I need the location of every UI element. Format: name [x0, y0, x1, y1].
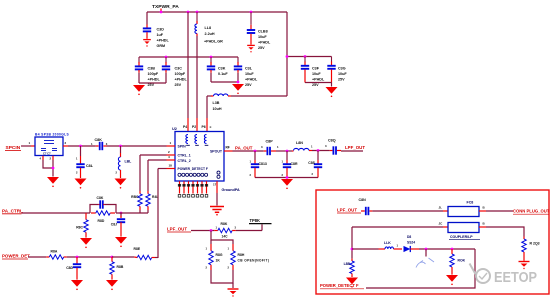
svg-text:25V: 25V — [245, 83, 252, 87]
wire shunt rail — [255, 176, 318, 179]
wire PA_OUT — [233, 150, 264, 153]
svg-text:18: 18 — [169, 163, 173, 167]
svg-text:L8B: L8B — [344, 262, 351, 266]
svg-text:C8Q: C8Q — [328, 138, 336, 142]
svg-text:R8B: R8B — [117, 265, 124, 269]
svg-text:TP8K: TP8K — [250, 218, 261, 223]
svg-text:25V: 25V — [175, 83, 182, 87]
junction dots on bus — [160, 11, 253, 14]
wire seg — [276, 150, 292, 153]
svg-text:PA_OUT: PA_OUT — [235, 146, 253, 151]
resistor R8C — [131, 194, 142, 207]
svg-text:L3B: L3B — [213, 101, 220, 105]
capacitor CLB — [247, 12, 271, 50]
IC pin 2 stub — [167, 150, 176, 155]
svg-text:LLK: LLK — [384, 241, 391, 245]
wire FC8 out — [479, 206, 513, 211]
wire divider top — [211, 231, 233, 245]
svg-text:R8K: R8K — [221, 222, 228, 226]
ground under C3D — [143, 40, 151, 47]
svg-text:C8K: C8K — [97, 196, 104, 200]
net label LPF_OUT — [341, 145, 365, 151]
filter FC8 box — [448, 201, 479, 217]
svg-text:C3B: C3B — [148, 67, 156, 71]
wire coupler out — [479, 222, 524, 237]
svg-text:C8K: C8K — [95, 138, 103, 142]
ground under C8D — [71, 280, 83, 290]
IC pin 3 stub — [167, 155, 176, 160]
capacitor C8R shunt — [282, 151, 298, 178]
svg-text:100pF: 100pF — [175, 72, 186, 76]
svg-text:R8E: R8E — [134, 247, 141, 251]
svg-text:C3C: C3C — [175, 67, 183, 71]
inductor LLK — [384, 241, 402, 249]
svg-text:C3D: C3D — [157, 28, 165, 32]
wire POWER_DETECT vertical — [158, 169, 167, 259]
wire to R8K — [191, 229, 214, 232]
ground under C8J — [115, 237, 127, 247]
net label LPF_OUT 2 — [167, 227, 191, 232]
svg-text:25V: 25V — [338, 78, 345, 82]
svg-text:+PHDL: +PHDL — [148, 78, 161, 82]
coupler box — [448, 223, 480, 240]
wire POWER_DET — [28, 256, 46, 258]
svg-text:C3F: C3F — [312, 67, 320, 71]
text GroundPA — [222, 188, 240, 192]
capacitor C3B — [135, 57, 161, 87]
IC output pin stub — [224, 146, 233, 151]
IC internal gnd ball row — [178, 171, 220, 178]
testpoint TP8K — [249, 218, 272, 224]
IC bottom pin pads — [178, 195, 208, 198]
wire CTRL_1 to R8C — [140, 155, 167, 194]
net label SPCIN — [5, 145, 21, 151]
svg-text:25V: 25V — [312, 83, 319, 87]
capacitor C3D — [143, 25, 170, 49]
resistor ROK — [450, 249, 466, 275]
svg-text:C8L: C8L — [86, 164, 94, 168]
wire divider bottom — [211, 270, 233, 288]
capacitor C3K — [207, 57, 229, 82]
capacitor C8L shunt — [76, 146, 94, 178]
svg-text:LPF_OUT: LPF_OUT — [345, 145, 365, 150]
wire filter out — [68, 145, 96, 148]
wire to testpoint — [236, 224, 262, 230]
wire row3 right — [419, 248, 475, 251]
filter FL1 output stub — [63, 141, 68, 146]
capacitor C3F — [301, 57, 325, 88]
resistor R8D series — [91, 211, 115, 223]
net label PA_CTRL — [2, 208, 23, 214]
capacitor C8N series — [359, 198, 373, 215]
svg-text:SPOUT: SPOUT — [210, 150, 223, 154]
filter FL1 internals — [41, 141, 57, 156]
svg-text:LPF_OUT: LPF_OUT — [337, 207, 357, 212]
svg-text:CTRL_1: CTRL_1 — [178, 154, 191, 158]
ground under CLB — [247, 45, 255, 52]
svg-text:+PHDL: +PHDL — [258, 41, 271, 45]
ground bank2 — [232, 84, 244, 94]
svg-text:R8D: R8D — [98, 219, 105, 223]
ground under FL1 — [47, 177, 59, 187]
ground under R2Q3 — [519, 262, 530, 270]
IC internal coil 3 — [204, 135, 208, 146]
svg-text:POWER_DET: POWER_DET — [2, 254, 30, 259]
ground pair3 — [326, 87, 338, 97]
resistor R8B shunt — [110, 257, 124, 280]
capacitor C8K series — [91, 138, 108, 150]
svg-text:CONN PLUG_OUT: CONN PLUG_OUT — [513, 209, 550, 214]
wire coupler left — [352, 222, 448, 227]
capacitor C8Q series — [325, 138, 341, 154]
wire to IC pin1 — [107, 145, 167, 148]
IC internal coil 1 — [186, 135, 190, 146]
svg-text:C8J: C8J — [111, 222, 117, 226]
svg-text:+PHDL: +PHDL — [157, 39, 170, 43]
IC U2 box — [172, 127, 224, 181]
net label POWER_DET — [2, 254, 30, 259]
svg-text:10uH: 10uH — [213, 107, 222, 111]
svg-text:COUPLER/LP: COUPLER/LP — [450, 235, 473, 239]
diode D8 — [404, 235, 420, 252]
svg-text:GroundPA: GroundPA — [222, 188, 240, 192]
ground under C8L — [75, 179, 87, 189]
svg-text:P2: P2 — [192, 125, 196, 129]
svg-text:C8N: C8N — [359, 198, 367, 202]
svg-text:L8N: L8N — [296, 141, 303, 145]
svg-text:17: 17 — [213, 183, 217, 187]
svg-text:LBL: LBL — [125, 160, 133, 164]
IC ground pin stub — [213, 181, 217, 205]
svg-text:CB OPEN(NOFIT): CB OPEN(NOFIT) — [238, 259, 270, 263]
IC internal coil 2 — [195, 135, 199, 146]
IC pin 4 stub — [167, 163, 176, 168]
svg-text:C8D: C8D — [66, 266, 73, 270]
wire PA_CTRL — [22, 212, 149, 215]
wire SPCIN to filter — [21, 141, 35, 146]
capacitor C8D shunt — [66, 257, 81, 280]
IC pin label SPIN — [178, 145, 187, 149]
svg-text:SS24: SS24 — [407, 241, 415, 245]
svg-text:SPCIN: SPCIN — [6, 145, 21, 151]
svg-text:R 2Q3: R 2Q3 — [530, 241, 540, 245]
svg-text:D8: D8 — [407, 235, 411, 239]
ghost transistor — [416, 258, 434, 268]
svg-text:B4 SP3B 2000GLS: B4 SP3B 2000GLS — [35, 133, 69, 137]
ground LPF rail — [281, 179, 293, 189]
svg-text:10uF: 10uF — [338, 72, 347, 76]
wire R8C bottom — [139, 206, 141, 213]
net label CONN PLUG_OUT — [513, 209, 550, 215]
svg-text:10uF: 10uF — [312, 72, 321, 76]
IC bottom pin numbers — [178, 184, 208, 187]
wire bank2 bottom — [211, 81, 239, 84]
svg-text:C7 C7: C7 C7 — [43, 151, 51, 155]
svg-text:R8A: R8A — [51, 249, 58, 253]
capacitor C3C — [162, 57, 188, 87]
svg-text:+PHDL: +PHDL — [245, 78, 258, 82]
svg-text:EETOP: EETOP — [494, 270, 537, 286]
IC pin label SPOUT — [210, 150, 223, 154]
detail box border — [316, 190, 549, 294]
resistor R2Q3 — [522, 237, 540, 261]
svg-text:25V: 25V — [258, 46, 265, 50]
wire CTRL_2 to R4L — [148, 160, 167, 194]
svg-text:P4: P4 — [183, 125, 187, 129]
resistor R4L — [146, 194, 159, 207]
svg-text:+PHDL.GR: +PHDL.GR — [204, 40, 223, 44]
svg-text:CLB8: CLB8 — [258, 30, 268, 34]
wire decoupling rail — [139, 56, 238, 58]
net label TXPWR_PA — [152, 4, 179, 11]
wire to junctions — [67, 256, 135, 259]
svg-text:P6: P6 — [202, 125, 206, 129]
IC bottom pin stubs — [180, 181, 207, 193]
wire diode node drop — [425, 249, 427, 257]
wire row3 — [352, 248, 385, 250]
wire vertical x188 bus to IC — [187, 12, 189, 132]
IC pin label CTRL_1 — [178, 154, 191, 158]
svg-text:TXPWR_PA: TXPWR_PA — [152, 4, 179, 10]
svg-text:RBC: RBC — [131, 195, 139, 199]
capacitor C3L — [234, 57, 258, 87]
capacitor C8P series — [261, 139, 279, 155]
svg-text:10uF: 10uF — [245, 72, 254, 76]
svg-text:10uF: 10uF — [258, 35, 267, 39]
resistor R8C2 shunt — [76, 213, 88, 238]
watermark EETOP — [494, 270, 537, 286]
svg-text:LPF_OUT: LPF_OUT — [167, 227, 187, 232]
svg-text:C8R: C8R — [291, 162, 298, 166]
filter FL1 B4 SP3B box — [35, 133, 69, 156]
wire right branch — [286, 12, 332, 96]
ground bank1 — [133, 85, 145, 95]
svg-text:1uF: 1uF — [157, 33, 164, 37]
svg-text:1K: 1K — [216, 259, 221, 263]
svg-text:LL8: LL8 — [205, 26, 212, 30]
watermark logo — [470, 264, 491, 284]
svg-text:ROK: ROK — [458, 259, 466, 263]
svg-text:R8G: R8G — [216, 253, 223, 257]
net label LPF_OUT 3 — [337, 207, 361, 213]
resistor R8H — [228, 244, 270, 270]
ground under R8B — [106, 280, 118, 290]
inductor L3B — [207, 94, 287, 111]
capacitor C8S shunt — [308, 151, 322, 178]
wire bank1 bottom — [139, 82, 166, 84]
svg-text:100pF: 100pF — [148, 72, 159, 76]
capacitor C8X parallel top — [90, 196, 116, 213]
svg-text:14C: 14C — [222, 235, 229, 239]
IC pin 1 stub — [167, 141, 176, 146]
svg-text:POWER_DETECT F: POWER_DETECT F — [320, 283, 359, 288]
capacitor C8J shunt — [111, 213, 125, 237]
wire seg2 — [312, 149, 330, 152]
svg-text:GRM: GRM — [157, 44, 166, 48]
wire left vertical — [351, 227, 354, 259]
resistor L8B — [344, 259, 355, 277]
wire R4L bottom — [147, 206, 149, 213]
resistor R8G — [206, 244, 223, 270]
wire x207 to IC pin — [206, 96, 208, 132]
net label PA_OUT — [235, 146, 253, 151]
inductor LL8 — [195, 12, 223, 44]
resistor R8A series — [46, 249, 66, 259]
svg-text:C3K: C3K — [218, 67, 226, 71]
ground under LBL — [115, 179, 127, 189]
wire to FC8 — [372, 206, 448, 211]
svg-text:+PHDL: +PHDL — [175, 78, 188, 82]
wire main power bus — [147, 11, 287, 13]
svg-text:C813: C813 — [259, 162, 267, 166]
svg-text:FC8: FC8 — [467, 201, 474, 205]
ground under divider — [228, 289, 239, 297]
IC top pin labels — [183, 125, 212, 129]
ground under L8B — [346, 278, 358, 288]
svg-text:C8P: C8P — [266, 139, 274, 143]
capacitor C3G — [327, 57, 347, 83]
net label POWER_DETECT F — [320, 283, 364, 289]
svg-text:CTRL_2: CTRL_2 — [178, 159, 191, 163]
resistor R8K series — [214, 222, 236, 238]
capacitor C813 shunt — [250, 151, 267, 178]
svg-text:=: = — [210, 125, 212, 129]
svg-text:2.2uH: 2.2uH — [205, 32, 215, 36]
inductor L8N series — [292, 141, 313, 151]
resistor R8E series — [134, 247, 159, 260]
svg-text:R8C: R8C — [76, 225, 83, 229]
svg-text:C3L: C3L — [245, 67, 253, 71]
svg-text:R8H: R8H — [238, 253, 245, 257]
svg-text:U2: U2 — [172, 127, 177, 131]
wire bus left drop — [146, 12, 148, 25]
chassis ground under IC — [210, 207, 224, 216]
svg-text:SPIN: SPIN — [178, 145, 187, 149]
svg-text:C3G: C3G — [338, 67, 346, 71]
wire pair3 bottom — [305, 83, 332, 87]
svg-text:0.1uF: 0.1uF — [218, 72, 228, 76]
wire vertical x197 to IC — [196, 36, 198, 132]
IC pin label POWER_DETECT — [178, 167, 208, 171]
svg-text:C8S: C8S — [308, 161, 315, 165]
ground under R8C2 — [80, 238, 92, 248]
wire right loop — [366, 249, 475, 288]
inductor LBL shunt — [116, 146, 133, 178]
svg-text:RF: RF — [226, 146, 230, 150]
junction dots rail — [165, 56, 213, 59]
svg-text:PA_CTRL: PA_CTRL — [2, 208, 23, 213]
IC pin label CTRL_2 — [178, 159, 191, 163]
svg-text:POWER_DETECT F: POWER_DETECT F — [178, 167, 208, 171]
svg-text:+PHDL: +PHDL — [312, 78, 325, 82]
ground under ROK — [446, 275, 458, 285]
filter FL1 bottom pins — [40, 156, 55, 177]
svg-text:JL: JL — [439, 206, 443, 210]
